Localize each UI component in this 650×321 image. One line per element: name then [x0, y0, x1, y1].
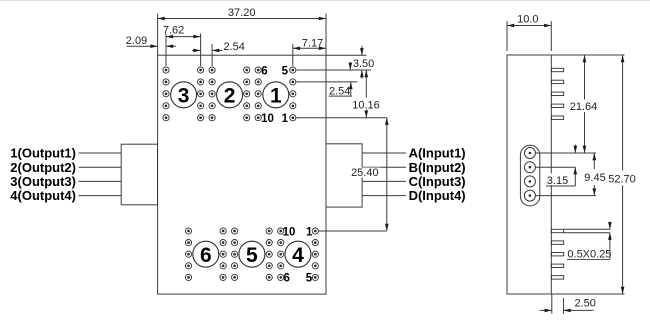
relay coil circle 4 (bottom): [285, 241, 311, 267]
top pin column 1: [163, 67, 169, 121]
pin 1 leader line (top field): [296, 117, 387, 119]
svg-text:2.54: 2.54: [224, 41, 245, 53]
svg-text:A(Input1): A(Input1): [409, 146, 466, 161]
bottom edge extension line (side): [551, 293, 624, 295]
pin 1 leader line (bottom field): [319, 230, 387, 232]
side view top pin 5: [551, 116, 563, 119]
dimension 7.17: [293, 37, 326, 50]
input connector pin D: [524, 190, 535, 201]
top edge extension line (side): [551, 54, 624, 56]
svg-text:0.5X0.25: 0.5X0.25: [567, 249, 611, 261]
pin thickness extension lines (0.5X0.25): [564, 228, 610, 230]
output lead wire 3: [79, 180, 122, 182]
pin 4 leader line: [296, 81, 357, 83]
dimension 0.5X0.25: [567, 222, 612, 261]
side view top pin 3: [551, 92, 563, 95]
svg-text:3(Output3): 3(Output3): [10, 174, 76, 189]
side view top pin 1: [551, 68, 563, 71]
svg-text:5: 5: [282, 65, 289, 77]
svg-text:4(Output4): 4(Output4): [10, 188, 76, 203]
svg-text:1: 1: [306, 226, 313, 238]
svg-text:2.50: 2.50: [575, 297, 596, 309]
input lead wire A: [362, 152, 406, 154]
svg-text:1(Output1): 1(Output1): [10, 146, 76, 161]
bottom pin column 2: [220, 228, 226, 281]
svg-text:1: 1: [282, 113, 289, 125]
svg-text:6: 6: [200, 244, 212, 267]
front view body outline: [158, 55, 326, 294]
dimension 9.45: [584, 153, 607, 196]
svg-text:C(Input3): C(Input3): [409, 174, 466, 189]
svg-text:B(Input2): B(Input2): [409, 160, 466, 175]
dimension 37.20: [158, 7, 326, 20]
output lead wire 4: [79, 195, 122, 197]
side view bottom pin 1: [551, 229, 563, 232]
dimension 2.50: [540, 297, 596, 312]
output lead wire 2: [79, 166, 122, 168]
relay coil circle 6 (bottom): [193, 241, 219, 267]
svg-text:2(Output2): 2(Output2): [10, 160, 76, 175]
dimension 2.50 extension lines: [551, 294, 553, 314]
dimension 52.70: [608, 55, 636, 294]
bottom pin column 4: [266, 228, 272, 281]
side view body outline: [507, 55, 551, 294]
bottom pin column 1: [185, 228, 191, 281]
bottom pin column 3: [232, 228, 238, 281]
dimension 7.62: [163, 25, 201, 39]
pin D leader line: [535, 195, 596, 197]
svg-text:D(Input4): D(Input4): [409, 188, 466, 203]
input lead wire D: [362, 195, 406, 197]
side view top pin 4: [551, 104, 563, 107]
svg-text:3: 3: [178, 84, 190, 107]
left mounting tab: [121, 144, 157, 205]
svg-text:3.15: 3.15: [547, 175, 568, 187]
dimension 10.16: [352, 70, 380, 118]
relay coil circle 3 (top): [171, 82, 197, 108]
relay coil circle 2 (top): [217, 82, 243, 108]
side view bottom pin 4: [551, 264, 563, 267]
input connector housing: [520, 145, 539, 206]
svg-text:52.70: 52.70: [608, 174, 636, 186]
input connector pin A: [524, 148, 535, 159]
body top edge extension (for 3.50): [326, 54, 367, 56]
svg-text:10: 10: [261, 113, 274, 125]
side view bottom pin 3: [551, 253, 563, 256]
svg-text:9.45: 9.45: [584, 172, 605, 184]
input lead wire C: [362, 180, 406, 182]
dimension 3.50: [353, 46, 374, 79]
dimension 7.17 extension line: [292, 44, 294, 66]
right mounting tab: [326, 144, 362, 207]
svg-text:6: 6: [261, 65, 267, 77]
svg-text:7.17: 7.17: [302, 37, 323, 49]
svg-text:4: 4: [292, 244, 304, 267]
dimension 2.54 (top pitch) extension line: [211, 44, 213, 66]
bottom pin column 6: [312, 228, 318, 281]
svg-text:10.0: 10.0: [517, 14, 538, 26]
input connector pin C: [524, 176, 535, 187]
svg-text:5: 5: [306, 273, 313, 285]
svg-text:7.62: 7.62: [163, 25, 184, 37]
top pin column 5: [255, 67, 261, 121]
top pin column 4: [244, 67, 250, 121]
side view bottom pin 5: [551, 276, 563, 279]
dimension 2.54 (top pitch): [192, 41, 245, 53]
svg-text:1: 1: [270, 84, 282, 107]
side view bottom pin 2: [551, 241, 563, 244]
side view top pin 2: [551, 80, 563, 83]
output lead wire 1: [79, 152, 122, 154]
svg-text:37.20: 37.20: [228, 7, 256, 19]
svg-text:10.16: 10.16: [352, 99, 380, 111]
pin B leader line: [535, 166, 575, 168]
dimension 2.09: [126, 35, 176, 48]
svg-text:2: 2: [224, 84, 236, 107]
svg-text:2.54: 2.54: [329, 85, 350, 97]
relay coil circle 1 (top): [263, 82, 289, 108]
dimension 25.40: [351, 118, 389, 231]
svg-text:10: 10: [283, 226, 296, 238]
top pin column 2: [198, 67, 204, 121]
svg-text:21.64: 21.64: [570, 101, 598, 113]
input connector pin B: [524, 162, 535, 173]
svg-text:6: 6: [283, 273, 289, 285]
dimension 37.20 extension lines: [157, 14, 159, 56]
input lead wire B: [362, 166, 406, 168]
dimension 10.0: [507, 14, 551, 28]
top window edge artifact: [0, 0, 650, 2]
dimension 10.0 extension lines: [506, 21, 508, 51]
dimension 3.15: [546, 145, 577, 188]
svg-text:25.40: 25.40: [351, 167, 379, 179]
pin 5 leader line: [296, 69, 371, 71]
dimension 2.54 (right): [329, 62, 353, 97]
svg-text:2.09: 2.09: [126, 35, 147, 47]
dimension 7.62 extension lines: [165, 34, 167, 67]
pin A leader line: [535, 152, 595, 154]
relay coil circle 5 (bottom): [239, 241, 265, 267]
dimension 21.64: [570, 55, 598, 153]
svg-text:5: 5: [246, 244, 258, 267]
bottom pin column 5: [278, 228, 284, 281]
top pin column 6: [290, 67, 296, 121]
svg-text:3.50: 3.50: [353, 58, 374, 70]
top pin column 3: [209, 67, 215, 121]
